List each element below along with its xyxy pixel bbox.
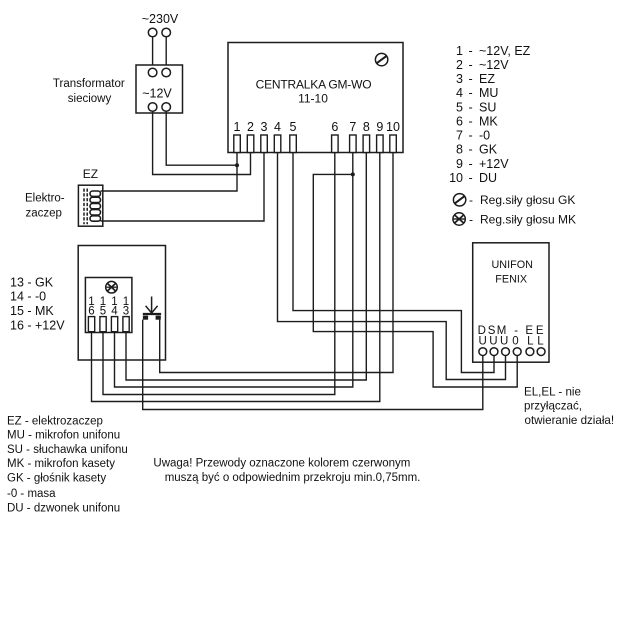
op unit CENTRALKA GM-WO box [228, 43, 403, 153]
strike armature dashed lines [84, 189, 87, 225]
door station terminal block [85, 278, 131, 333]
svg-text:DU: DU [479, 171, 497, 185]
unifon UNIFON FENIX box [473, 243, 549, 362]
wire pushbutton to unifon DU [143, 320, 483, 410]
svg-text:U: U [489, 336, 497, 348]
legend abbreviations [7, 415, 128, 514]
wire terminal 5 SU to unifon [293, 153, 494, 373]
svg-text:~230V: ~230V [142, 12, 179, 26]
svg-text:-: - [469, 213, 473, 227]
svg-text:Reg.siły głosu MK: Reg.siły głosu MK [480, 213, 576, 227]
svg-text:U: U [500, 336, 508, 348]
svg-text:1: 1 [234, 120, 241, 134]
svg-text:6: 6 [331, 120, 338, 134]
legend potentiometer MK icon [453, 213, 465, 225]
svg-text:otwieranie działa!: otwieranie działa! [525, 414, 615, 427]
svg-text:L: L [527, 336, 534, 348]
svg-text:-: - [469, 171, 473, 185]
pin 5 [290, 120, 297, 153]
strike coil [90, 191, 101, 221]
svg-text:2: 2 [456, 58, 463, 72]
unifon terminal EL [537, 348, 545, 356]
svg-text:14 - -0: 14 - -0 [10, 290, 46, 304]
terminal mains L [148, 28, 157, 37]
unifon pin labels [478, 325, 545, 348]
svg-text:Elektro-: Elektro- [25, 193, 65, 205]
svg-text:EL,EL - nie: EL,EL - nie [524, 385, 581, 398]
wire mains N to transformer [165, 37, 167, 68]
svg-text:~12V: ~12V [142, 87, 172, 101]
pin 3 [261, 120, 268, 153]
svg-text:GK - głośnik kasety: GK - głośnik kasety [7, 472, 106, 484]
svg-text:Transformator: Transformator [53, 78, 125, 90]
svg-text:15 - MK: 15 - MK [10, 304, 54, 318]
svg-text:~12V: ~12V [479, 58, 509, 72]
svg-text:8: 8 [456, 143, 463, 157]
wire terminal 6 MK to door station pin 15 [103, 153, 335, 395]
potentiometer GK screw [375, 53, 387, 65]
note Uwaga [153, 458, 420, 485]
wire transformer secondary to terminal 2 [153, 111, 251, 174]
transformer secondary terminal 2 [162, 103, 171, 112]
svg-text:EZ: EZ [83, 167, 98, 181]
svg-text:-: - [469, 157, 473, 171]
svg-text:5: 5 [100, 306, 106, 318]
unifon terminal SU [490, 348, 498, 356]
pin 9 [376, 120, 383, 153]
electric strike EZ box [78, 185, 102, 226]
svg-text:9: 9 [376, 120, 383, 134]
svg-text:6: 6 [88, 306, 94, 318]
svg-text:3: 3 [123, 306, 129, 318]
svg-text:GK: GK [479, 143, 498, 157]
wire EZ to terminal 1 [101, 153, 238, 192]
legend potentiometer GK icon [453, 194, 465, 206]
unifon terminal MU [502, 348, 510, 356]
svg-text:10: 10 [386, 120, 400, 134]
svg-text:Reg.siły głosu GK: Reg.siły głosu GK [480, 193, 575, 207]
svg-text:SU - słuchawka unifonu: SU - słuchawka unifonu [7, 444, 128, 456]
svg-text:-: - [469, 143, 473, 157]
pin 6 [331, 120, 338, 153]
unifon terminal EL [526, 348, 534, 356]
svg-text:-: - [469, 100, 473, 114]
svg-text:U: U [479, 336, 487, 348]
svg-text:zaczep: zaczep [26, 208, 62, 220]
svg-text:13 - GK: 13 - GK [10, 275, 54, 289]
svg-text:SU: SU [479, 100, 496, 114]
wire terminal 9 +12V to door station pin 16 [92, 153, 380, 402]
svg-text:6: 6 [456, 114, 463, 128]
svg-text:-: - [469, 72, 473, 86]
svg-text:przyłączać,: przyłączać, [524, 400, 582, 413]
svg-text:5: 5 [456, 100, 463, 114]
svg-text:11-10: 11-10 [298, 92, 328, 106]
pin 16 [88, 296, 94, 332]
pin 8 [363, 120, 370, 153]
svg-text:-: - [469, 193, 473, 207]
wire terminal 10 DU to pushbutton [160, 153, 393, 373]
svg-text:0: 0 [512, 336, 518, 348]
svg-text:UNIFON: UNIFON [492, 259, 533, 271]
svg-text:EZ - elektrozaczep: EZ - elektrozaczep [7, 415, 103, 427]
wire EZ to terminal 3 [101, 153, 265, 222]
svg-text:7: 7 [456, 129, 463, 143]
pin 13 [123, 296, 129, 332]
svg-text:-: - [469, 129, 473, 143]
transformer TR1 box [136, 65, 183, 113]
svg-text:3: 3 [456, 72, 463, 86]
svg-text:9: 9 [456, 157, 463, 171]
pushbutton S1 call button [143, 297, 161, 320]
svg-text:-0 - masa: -0 - masa [7, 488, 56, 500]
wire mains L to transformer [152, 37, 154, 68]
junction on -0 branch [351, 172, 355, 176]
svg-text:10: 10 [449, 171, 463, 185]
svg-text:L: L [537, 336, 544, 348]
wire terminal 4 MU to unifon [278, 153, 506, 380]
svg-text:MU - mikrofon unifonu: MU - mikrofon unifonu [7, 430, 120, 442]
svg-text:16 - +12V: 16 - +12V [10, 319, 65, 333]
pin 7 [349, 120, 356, 153]
svg-text:-: - [469, 58, 473, 72]
unifon terminal DU [479, 348, 487, 356]
svg-text:8: 8 [363, 120, 370, 134]
svg-text:-: - [469, 44, 473, 58]
svg-text:4: 4 [274, 120, 281, 134]
svg-text:-: - [469, 86, 473, 100]
note EL,EL [524, 385, 614, 427]
transformer primary terminal 2 [162, 68, 171, 77]
pin 10 [386, 120, 400, 153]
svg-text:~12V, EZ: ~12V, EZ [479, 44, 531, 58]
wire terminal 8 GK to door station pin 13 [126, 153, 366, 381]
unifon terminal -0 [513, 348, 521, 356]
door station outer box [78, 246, 165, 361]
svg-text:CENTRALKA GM-WO: CENTRALKA GM-WO [256, 78, 372, 92]
svg-text:7: 7 [349, 120, 356, 134]
svg-text:3: 3 [261, 120, 268, 134]
svg-text:FENIX: FENIX [495, 274, 527, 286]
svg-text:5: 5 [290, 120, 297, 134]
svg-text:MK - mikrofon kasety: MK - mikrofon kasety [7, 458, 115, 470]
svg-text:1: 1 [456, 44, 463, 58]
svg-text:2: 2 [247, 120, 254, 134]
wire terminal 7 -0 to unifon [313, 174, 517, 387]
svg-text:DU - dzwonek unifonu: DU - dzwonek unifonu [7, 502, 120, 514]
pin 2 [247, 120, 254, 153]
svg-text:sieciowy: sieciowy [68, 93, 112, 105]
svg-text:-: - [469, 114, 473, 128]
svg-text:4: 4 [111, 306, 118, 318]
svg-text:4: 4 [456, 86, 463, 100]
pin 15 [100, 296, 106, 332]
transformer primary terminal 1 [148, 68, 157, 77]
svg-text:muszą być o odpowiednim przekr: muszą być o odpowiednim przekroju min.0,… [165, 472, 421, 484]
svg-text:Uwaga! Przewody oznaczone kolo: Uwaga! Przewody oznaczone kolorem czerwo… [153, 458, 410, 470]
wire transformer secondary to terminal 1 [166, 111, 237, 165]
pin 14 [111, 296, 118, 332]
svg-text:-0: -0 [479, 129, 490, 143]
svg-text:MK: MK [479, 114, 498, 128]
pin 1 [234, 120, 241, 153]
svg-text:MU: MU [479, 86, 498, 100]
terminal mains N [162, 28, 171, 37]
svg-text:EZ: EZ [479, 72, 495, 86]
legend pin list [449, 44, 531, 185]
potentiometer MK on door station [106, 281, 118, 293]
svg-text:+12V: +12V [479, 157, 509, 171]
wire terminal 7 -0 to door station pin 14 [115, 153, 353, 388]
transformer secondary terminal 1 [148, 103, 157, 112]
pin 4 [274, 120, 281, 153]
label door station pins [10, 275, 65, 332]
junction on wire to terminal 1 [235, 163, 239, 167]
